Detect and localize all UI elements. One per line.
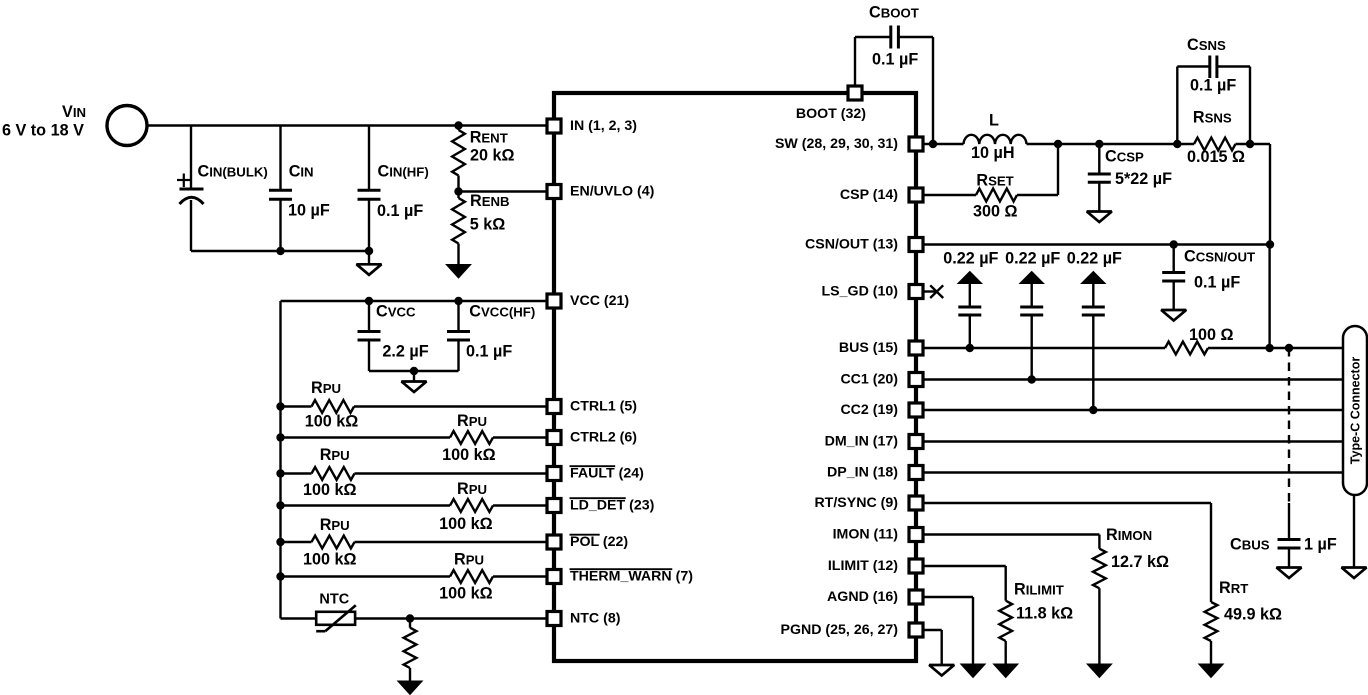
node VCC cap bottom junction (410, 367, 418, 375)
svg-text:0.22 µF: 0.22 µF (1005, 250, 1060, 268)
svg-text:THERM_WARN (7): THERM_WARN (7) (570, 569, 693, 585)
node CC1 cap junction (1028, 375, 1036, 383)
capacitor CSNS 0.1 uF (1177, 36, 1250, 144)
pin SW (28, 29, 30, 31) (775, 136, 923, 152)
node NTC junction (406, 614, 414, 622)
capacitor CIN 10 uF (269, 126, 330, 252)
wire CSN/OUT junction to BUS rail (1268, 245, 1270, 349)
svg-text:EN/UVLO (4): EN/UVLO (4) (570, 184, 655, 200)
svg-text:Type-C Connector: Type-C Connector (1349, 357, 1363, 465)
resistor RILIMIT 11.8 kOhm (923, 566, 1073, 665)
svg-text:CVCC(HF): CVCC(HF) (469, 303, 535, 321)
node pull-up bus junction FAULT (276, 469, 284, 477)
node pull-up bus junction CTRL2 (276, 433, 284, 441)
node VBUS-CSN junction (1265, 344, 1273, 352)
resistor RRT 49.9 kOhm (923, 503, 1282, 665)
svg-text:SW (28, 29, 30, 31): SW (28, 29, 30, 31) (775, 136, 898, 152)
svg-text:1 µF: 1 µF (1304, 536, 1337, 554)
svg-text:CTRL2 (6): CTRL2 (6) (570, 430, 637, 446)
resistor RPU 100 kOhm for POL (281, 516, 548, 569)
pin BUS (15) (839, 340, 923, 356)
ground RIMON (1087, 664, 1112, 678)
ground RILIMIT (993, 664, 1018, 678)
svg-text:RT/SYNC (9): RT/SYNC (9) (814, 495, 898, 511)
svg-text:6 V to 18 V: 6 V to 18 V (2, 122, 84, 140)
pin PGND (25, 26, 27) (781, 622, 924, 638)
svg-text:IMON (11): IMON (11) (833, 527, 899, 543)
node VCC-CVCC(HF) junction (454, 297, 462, 305)
pin AGND (16) (827, 589, 923, 605)
ground CBUS (1277, 568, 1302, 579)
wire RSNS to CSN/OUT rail (1269, 144, 1271, 245)
svg-text:LS_GD (10): LS_GD (10) (822, 284, 899, 300)
ground CCSP (1087, 212, 1112, 223)
svg-text:300 Ω: 300 Ω (973, 203, 1018, 221)
node pull-up bus junction THERM_WARN (276, 572, 284, 580)
svg-text:NTC: NTC (319, 591, 349, 607)
wire CBUS dashed stub (1288, 348, 1290, 540)
wire inductor to RSNS node (1027, 143, 1195, 145)
svg-text:L: L (989, 112, 999, 130)
thermistor NTC (316, 591, 356, 631)
svg-text:0.1 µF: 0.1 µF (872, 51, 918, 69)
svg-text:0.22 µF: 0.22 µF (1067, 250, 1122, 268)
capacitor CCSN/OUT 0.1 uF (1162, 245, 1255, 311)
svg-text:RPU: RPU (454, 551, 484, 569)
svg-text:11.8 kΩ: 11.8 kΩ (1016, 605, 1073, 623)
resistor RPU 100 kOhm for CTRL2 (281, 412, 548, 464)
ground AGND (961, 664, 986, 678)
node VIN source (2, 103, 147, 146)
svg-text:100 kΩ: 100 kΩ (303, 551, 357, 569)
capacitor 0.22 uF on CC1 (1005, 250, 1060, 380)
pin POL (22) (547, 534, 628, 550)
resistor RIMON 12.7 kOhm (923, 526, 1169, 665)
node VIN-RENT junction (454, 121, 462, 129)
node pull-up bus junction POL (276, 538, 284, 546)
svg-text:RIMON: RIMON (1106, 526, 1152, 544)
svg-text:CTRL1 (5): CTRL1 (5) (570, 399, 637, 415)
ground input caps (357, 251, 382, 275)
svg-text:CCSP: CCSP (1105, 148, 1144, 166)
pin FAULT (24) (547, 466, 644, 482)
svg-text:100 kΩ: 100 kΩ (303, 481, 357, 499)
svg-text:PGND (25, 26, 27): PGND (25, 26, 27) (781, 622, 899, 638)
svg-text:CBOOT: CBOOT (869, 4, 919, 22)
wire EN junction to EN/UVLO pin (459, 190, 548, 192)
pin CC2 (19) (840, 402, 923, 418)
wire VCC pin to left pull-up bus (281, 300, 548, 302)
resistor RPU 100 kOhm for LD_DET (281, 480, 548, 533)
svg-text:0.1 µF: 0.1 µF (466, 343, 512, 361)
capacitor 0.22 uF on BUS (943, 250, 998, 349)
svg-text:IN (1, 2, 3): IN (1, 2, 3) (570, 118, 637, 134)
svg-text:CC2 (19): CC2 (19) (840, 402, 898, 418)
svg-text:10 µF: 10 µF (288, 202, 330, 220)
wire Type-C shield to ground (1353, 495, 1355, 568)
svg-text:CIN(HF): CIN(HF) (378, 163, 429, 181)
node RSNS right junction (1246, 140, 1254, 148)
svg-text:FAULT (24): FAULT (24) (570, 466, 644, 482)
svg-text:CC1 (20): CC1 (20) (840, 372, 898, 388)
pin VCC (21) (547, 293, 629, 309)
resistor RPU 100 kOhm for CTRL1 (281, 379, 548, 431)
wire DM_IN line (923, 440, 1343, 442)
wire left pull-up bus vertical (279, 301, 281, 619)
svg-text:RSET: RSET (976, 171, 1013, 189)
pin BOOT (32) (796, 86, 866, 122)
pin LD_DET (23) (547, 498, 655, 514)
node VBUS-CBUS junction (1285, 344, 1293, 352)
svg-text:BUS (15): BUS (15) (839, 340, 898, 356)
svg-text:CSP (14): CSP (14) (840, 187, 898, 203)
svg-text:AGND (16): AGND (16) (827, 589, 898, 605)
svg-text:LD_DET (23): LD_DET (23) (570, 498, 655, 514)
svg-text:VIN: VIN (62, 103, 86, 121)
wire SW pin to inductor (923, 143, 964, 145)
svg-text:RPU: RPU (320, 446, 350, 464)
node VCC-CVCC junction (365, 297, 373, 305)
svg-text:5*22 µF: 5*22 µF (1115, 170, 1172, 188)
pin ILIMIT (12) (828, 558, 923, 574)
wire AGND to ground (923, 597, 973, 665)
node CC2 cap junction (1089, 406, 1097, 414)
svg-text:VCC (21): VCC (21) (570, 293, 629, 309)
node input cap junction CIN (276, 247, 284, 255)
resistor RPU 100 kOhm for FAULT (281, 446, 548, 499)
svg-text:100 kΩ: 100 kΩ (439, 515, 493, 533)
capacitor CBUS 1 uF (1230, 536, 1337, 568)
pin LS_GD (10) (822, 284, 923, 300)
ground CCSN/OUT (1161, 310, 1186, 321)
capacitor CBOOT 0.1 uF (855, 4, 933, 145)
svg-text:CIN(BULK): CIN(BULK) (198, 163, 268, 181)
inductor L 10 uH (964, 112, 1027, 163)
svg-text:RPU: RPU (457, 412, 487, 430)
IC U1 TPS-type USB-C controller body (554, 93, 916, 661)
svg-text:0.015 Ω: 0.015 Ω (1187, 148, 1245, 166)
pin CC1 (20) (840, 372, 923, 388)
ground RENB (446, 265, 471, 279)
svg-text:NTC (8): NTC (8) (570, 611, 621, 627)
wire BUS pin to 100 Ohm (923, 347, 1165, 349)
svg-text:100 kΩ: 100 kΩ (305, 413, 359, 431)
wire CC1 line (923, 378, 1343, 380)
svg-text:100 kΩ: 100 kΩ (439, 585, 493, 603)
svg-text:ILIMIT (12): ILIMIT (12) (828, 558, 898, 574)
pin NTC (8) (547, 611, 621, 627)
resistor RENT 20 kOhm (452, 126, 514, 192)
svg-text:49.9 kΩ: 49.9 kΩ (1224, 606, 1282, 624)
resistor RSNS 0.015 Ohm (1187, 109, 1270, 167)
wire VIN to IN pin (147, 124, 547, 126)
ground RRT (1199, 664, 1224, 678)
capacitor CIN(HF) 0.1 uF (358, 126, 429, 252)
node CSN/OUT right junction (1266, 240, 1274, 248)
connector Type-C (1343, 326, 1367, 495)
node SW-CBOOT junction (929, 140, 937, 148)
pin CSN/OUT (13) (805, 237, 923, 253)
ground VCC caps (402, 371, 427, 392)
node CCSN/OUT junction (1170, 240, 1178, 248)
node BUS cap junction (966, 344, 974, 352)
node CCSP junction (1095, 140, 1103, 148)
svg-text:BOOT (32): BOOT (32) (796, 106, 866, 122)
svg-text:CSNS: CSNS (1187, 36, 1226, 54)
pin RT/SYNC (9) (814, 495, 923, 511)
svg-text:RSNS: RSNS (1193, 109, 1232, 127)
ground NTC pulldown (398, 681, 423, 695)
svg-text:5 kΩ: 5 kΩ (470, 216, 506, 234)
svg-text:0.1 µF: 0.1 µF (1190, 77, 1236, 95)
svg-text:12.7 kΩ: 12.7 kΩ (1111, 553, 1169, 571)
wire CC2 line (923, 409, 1343, 411)
svg-text:RPU: RPU (311, 379, 341, 397)
svg-text:2.2 µF: 2.2 µF (382, 343, 428, 361)
svg-text:RPU: RPU (320, 516, 350, 534)
node pull-up bus junction LD_DET (276, 501, 284, 509)
no-connect LS_GD (923, 285, 943, 298)
capacitor 0.22 uF on CC2 (1067, 250, 1122, 411)
pin THERM_WARN (7) (547, 569, 693, 585)
node RSNS left junction (1173, 140, 1181, 148)
node pull-up bus junction CTRL1 (276, 402, 284, 410)
svg-text:100 kΩ: 100 kΩ (442, 446, 496, 464)
pin CTRL2 (6) (547, 430, 637, 446)
capacitor CIN(BULK) (177, 126, 268, 252)
svg-text:CSN/OUT (13): CSN/OUT (13) (805, 237, 898, 253)
svg-text:20 kΩ: 20 kΩ (470, 147, 515, 165)
wire DP_IN line (923, 471, 1343, 473)
wire 100 Ohm to Type-C VBUS (1208, 347, 1343, 349)
pin IMON (11) (833, 527, 923, 543)
svg-text:RILIMIT: RILIMIT (1014, 581, 1064, 599)
svg-text:CIN: CIN (289, 163, 314, 181)
resistor 100 Ohm (1165, 326, 1234, 354)
resistor RENB 5 kOhm (452, 192, 509, 266)
pin CSP (14) (840, 187, 923, 203)
wire VCC cap bottom (369, 370, 459, 372)
pin DP_IN (18) (827, 465, 923, 481)
node EN junction (454, 187, 462, 195)
pin EN/UVLO (4) (547, 184, 655, 200)
wire PGND to ground (923, 630, 942, 665)
svg-text:DP_IN (18): DP_IN (18) (827, 465, 898, 481)
ground Type-C (1342, 568, 1367, 579)
resistor NTC pulldown (404, 619, 417, 682)
wire pull-up bus to NTC thermistor (281, 617, 317, 619)
capacitor CCSP 5*22 uF (1088, 144, 1172, 212)
svg-text:0.1 µF: 0.1 µF (1194, 274, 1240, 292)
capacitor CVCC 2.2 uF (358, 301, 429, 371)
svg-text:RENB: RENB (470, 192, 510, 210)
wire input cap bottom bus (191, 250, 369, 252)
svg-text:CCSN/OUT: CCSN/OUT (1184, 248, 1255, 266)
svg-text:POL (22): POL (22) (570, 534, 628, 550)
svg-text:CVCC: CVCC (376, 303, 416, 321)
node L-RSET junction (1054, 140, 1062, 148)
node input cap junction CIN(HF) (365, 247, 373, 255)
pin DM_IN (17) (825, 434, 923, 450)
wire CSN/OUT pin rail (923, 243, 1270, 245)
pin CTRL1 (5) (547, 399, 637, 415)
svg-text:CBUS: CBUS (1230, 536, 1270, 554)
svg-text:RENT: RENT (470, 128, 508, 146)
svg-text:DM_IN (17): DM_IN (17) (825, 434, 899, 450)
svg-text:10 µH: 10 µH (971, 144, 1015, 162)
svg-text:0.22 µF: 0.22 µF (943, 250, 998, 268)
svg-text:RPU: RPU (457, 480, 487, 498)
resistor RPU 100 kOhm for THERM_WARN (281, 551, 548, 603)
svg-text:100 Ω: 100 Ω (1189, 326, 1234, 344)
resistor RSET 300 Ohm (923, 144, 1058, 221)
wire NTC to NTC pin (355, 617, 547, 619)
pin IN (1, 2, 3) (547, 118, 637, 134)
ground PGND (929, 665, 954, 676)
capacitor CVCC(HF) 0.1 uF (447, 301, 535, 371)
svg-text:RRT: RRT (1219, 579, 1248, 597)
svg-text:0.1 µF: 0.1 µF (377, 202, 423, 220)
